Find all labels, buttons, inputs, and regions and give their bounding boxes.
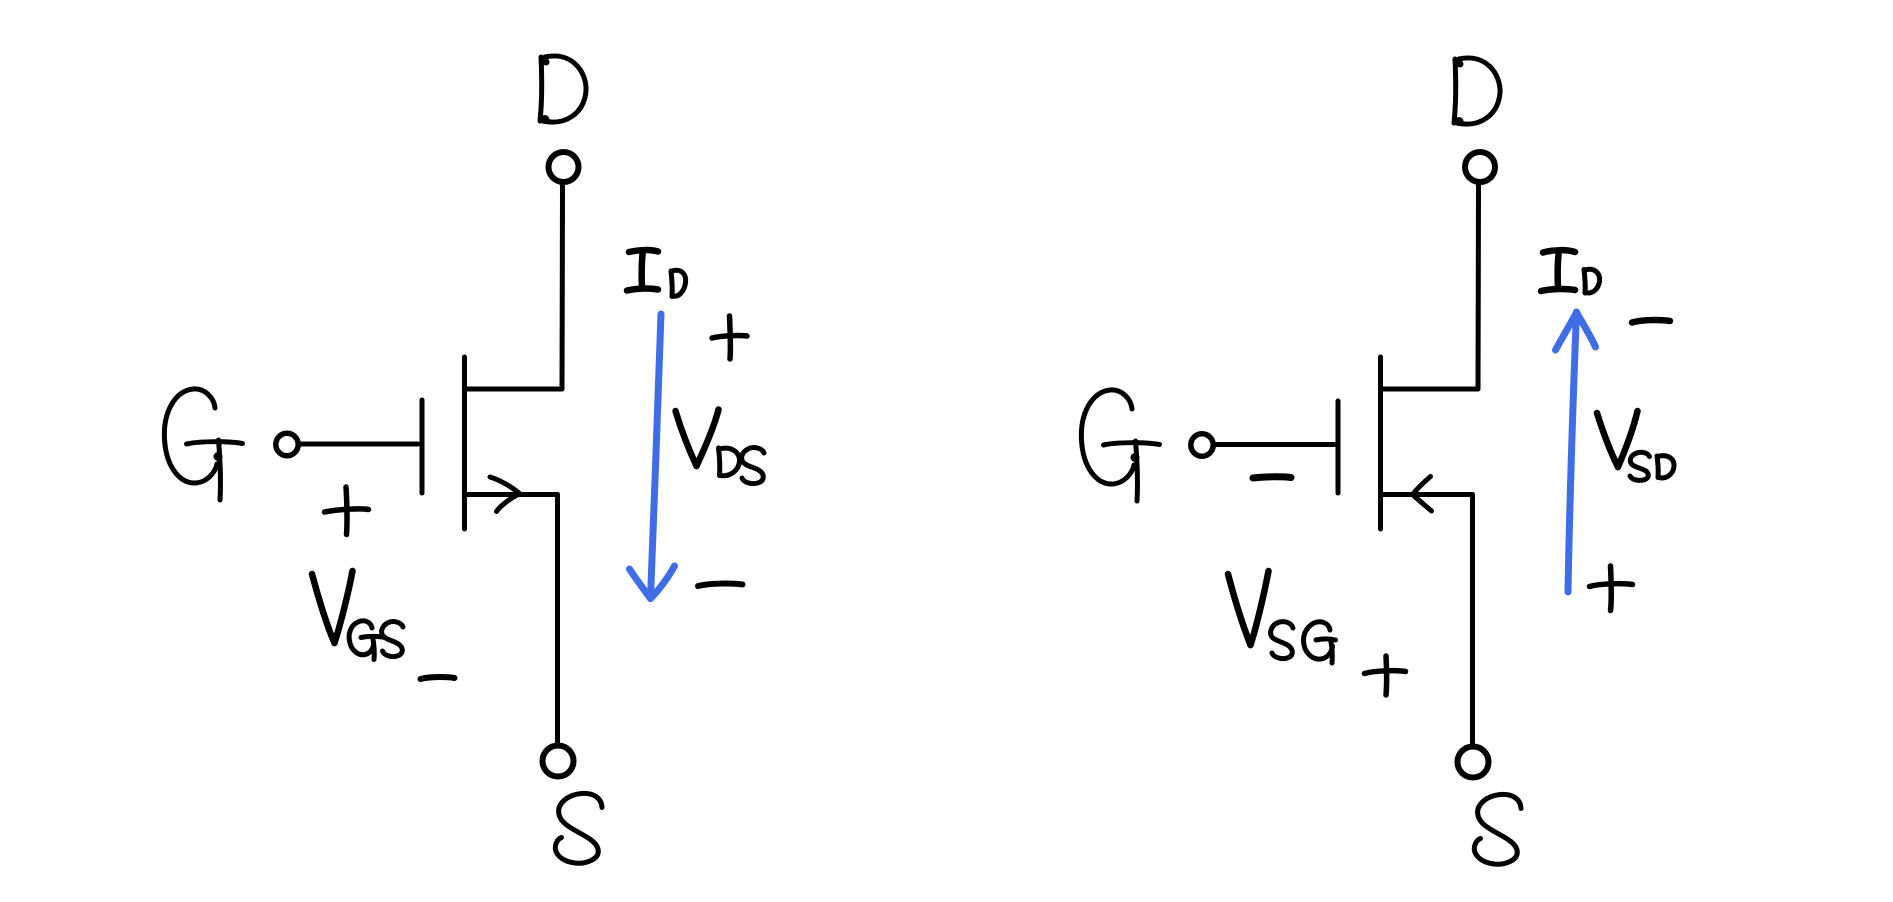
- label VGS (left): [312, 571, 403, 660]
- terminal S (right): [1458, 747, 1489, 778]
- wire drain horizontal (left): [465, 387, 562, 392]
- wire drain horizontal (right): [1381, 387, 1478, 392]
- wire drain vertical (right): [1476, 184, 1482, 389]
- wire gate (left): [300, 442, 418, 447]
- transistor M2 source lead with arrow (right, PMOS): [1381, 492, 1473, 497]
- terminal S (left): [543, 746, 574, 777]
- label ID (left): [627, 250, 686, 296]
- node S label (left): [555, 793, 602, 863]
- wire drain vertical (left): [560, 184, 566, 389]
- node S label (right): [1474, 794, 1521, 864]
- transistor M2 channel bar (right): [1378, 357, 1383, 529]
- wire gate (right): [1214, 442, 1334, 447]
- label VDS (left): [676, 410, 765, 484]
- terminal G (right): [1191, 434, 1213, 456]
- transistor M1 channel bar (left): [462, 357, 467, 529]
- polarity − (VGS, left): [421, 677, 455, 679]
- terminal D (right): [1465, 152, 1495, 182]
- label VSG (right): [1228, 571, 1336, 663]
- node D label (left): [540, 56, 586, 124]
- terminal D (left): [549, 152, 579, 182]
- label ID (right): [1541, 250, 1600, 293]
- wire source vertical (right): [1470, 495, 1475, 748]
- transistor M1 source lead with arrow (left, NMOS): [465, 492, 558, 497]
- polarity − (VDS bottom, left): [698, 584, 743, 586]
- polarity + (VSG, right): [1365, 656, 1406, 695]
- transistor M1 gate bar (left): [420, 400, 425, 493]
- current arrow ID (right, blue): [1556, 312, 1596, 592]
- polarity − (top right of arrow): [1632, 320, 1670, 322]
- current arrow ID (left, blue): [630, 314, 675, 599]
- terminal G (left): [276, 433, 298, 455]
- polarity + (VDS top, left): [712, 316, 747, 359]
- polarity − (gate, right): [1253, 477, 1291, 478]
- transistor M2 gate bar (right): [1336, 401, 1341, 493]
- node G label (right): [1081, 390, 1159, 501]
- polarity + (VGS, left): [325, 487, 369, 535]
- polarity + (bottom right of arrow): [1590, 566, 1633, 611]
- label VSD (right): [1597, 411, 1674, 480]
- wire source vertical (left): [555, 495, 560, 746]
- node G label (left): [164, 389, 242, 500]
- node D label (right): [1454, 58, 1500, 126]
